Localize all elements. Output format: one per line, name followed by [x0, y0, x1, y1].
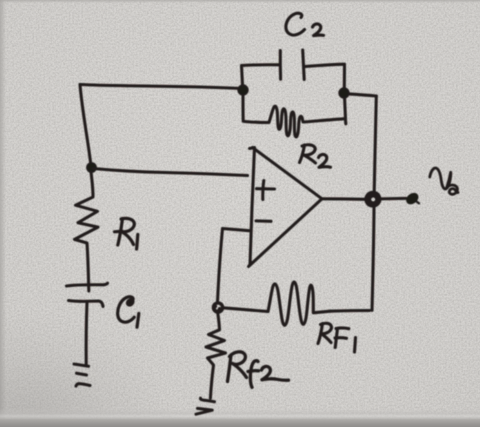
resistor R1	[75, 172, 99, 291]
right rail vertical (output node up to top corner)	[374, 96, 376, 192]
right rail top horizontal to C2 right junction	[347, 94, 377, 96]
wire output node to terminal	[381, 197, 407, 201]
wire C2 right plate to right junction	[305, 64, 345, 87]
op-amp output wire	[322, 197, 366, 201]
right rail vertical (output node down to RF1)	[372, 207, 374, 310]
ground (under RF2)	[200, 398, 214, 402]
capacitor C1 top plate	[67, 283, 108, 286]
ground (under C1)	[74, 364, 89, 366]
wire inverting input	[218, 229, 250, 303]
output node junction scribble	[366, 193, 380, 206]
wire RF1 to right rail corner	[330, 309, 370, 313]
label C2	[286, 13, 324, 35]
wire C2 left junction up	[242, 65, 280, 85]
capacitor C2 right plate	[303, 50, 305, 80]
output terminal dot	[404, 191, 421, 207]
resistor RF2	[206, 313, 226, 399]
node A junction dot	[87, 163, 96, 172]
label RF1	[318, 323, 356, 352]
label C1	[118, 297, 139, 327]
label R1	[115, 218, 138, 249]
node B junction (RF2 top, scribble dot)	[213, 303, 222, 312]
op-amp U1 triangle	[250, 148, 255, 265]
capacitor C1 bottom plate	[69, 301, 104, 307]
wire C1 to ground	[85, 303, 89, 366]
wire node B to RF1	[223, 308, 268, 312]
label RF2	[228, 352, 289, 387]
wire left vertical (top corner down to node A)	[80, 85, 91, 167]
capacitor C2 right junction dot	[339, 88, 349, 98]
label R2	[300, 145, 331, 168]
wire node A to op-amp + input	[93, 169, 248, 176]
label Vo	[430, 168, 458, 194]
capacitor C2 left junction dot	[238, 85, 248, 95]
op-amp minus sign	[256, 219, 271, 222]
wire top-left horizontal (node A to C2 left junction)	[80, 85, 242, 89]
op-amp plus sign	[257, 187, 275, 190]
capacitor C2 left plate	[279, 51, 282, 80]
resistor R2 bottom loop	[243, 96, 346, 137]
resistor RF1	[268, 282, 330, 325]
